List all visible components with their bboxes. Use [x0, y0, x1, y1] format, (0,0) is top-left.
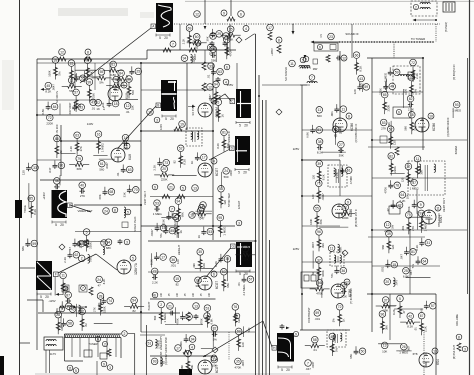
- junction: [140, 130, 142, 132]
- svg-text:5: 5: [40, 295, 42, 299]
- junction: [212, 130, 214, 132]
- resistor R4: [103, 69, 109, 71]
- svg-text:6.8K: 6.8K: [73, 74, 77, 80]
- wire: [334, 123, 336, 145]
- svg-text:51: 51: [347, 169, 351, 173]
- resistor R164: [219, 221, 221, 237]
- svg-text:22: 22: [96, 101, 100, 105]
- svg-text:27K: 27K: [411, 226, 415, 231]
- tube V2: [111, 148, 125, 162]
- svg-text:1 MEG: 1 MEG: [222, 226, 226, 236]
- svg-text:81: 81: [222, 131, 226, 135]
- svg-text:.01: .01: [313, 348, 317, 352]
- svg-text:MW: MW: [313, 67, 318, 71]
- wire: [204, 50, 206, 63]
- svg-text:.047: .047: [199, 216, 205, 220]
- svg-text:8: 8: [114, 208, 116, 212]
- svg-text:20: 20: [243, 171, 247, 175]
- wire: [59, 175, 61, 185]
- svg-text:5: 5: [75, 369, 77, 373]
- capacitor C14: [108, 99, 110, 102]
- ref: [192, 185, 199, 192]
- wire: [422, 58, 424, 150]
- wire: [196, 210, 213, 212]
- wire: [117, 74, 119, 88]
- svg-text:117V: 117V: [50, 352, 56, 356]
- svg-text:72: 72: [153, 270, 157, 274]
- wire: [236, 63, 238, 89]
- svg-text:6: 6: [213, 272, 215, 276]
- svg-text:120: 120: [400, 177, 404, 182]
- svg-text:38: 38: [318, 140, 322, 144]
- svg-text:140V: 140V: [87, 122, 94, 126]
- ref: [276, 37, 282, 43]
- svg-text:5: 5: [239, 272, 241, 276]
- svg-text:-115V: -115V: [48, 299, 55, 303]
- wire: [42, 300, 44, 312]
- photo pointer: [211, 94, 231, 103]
- svg-text:5: 5: [399, 297, 401, 301]
- svg-text:2.2K: 2.2K: [341, 295, 347, 299]
- svg-text:7: 7: [311, 76, 313, 80]
- wire: [372, 265, 440, 267]
- svg-text:17: 17: [268, 26, 272, 30]
- svg-text:36: 36: [171, 258, 175, 262]
- scope photo W6: [36, 261, 52, 290]
- capacitor C274: [195, 314, 197, 316]
- resistor R151: [75, 96, 77, 112]
- resistor R147: [81, 315, 83, 331]
- wire: [335, 127, 337, 138]
- resistor R86: [318, 167, 320, 183]
- resistor R275: [183, 350, 192, 354]
- inductor L232: [103, 247, 105, 250]
- capacitor C48: [159, 158, 161, 161]
- wire: [292, 24, 294, 32]
- ref: [95, 336, 100, 341]
- wire: [185, 0, 474, 2]
- svg-text:59: 59: [315, 311, 319, 315]
- svg-text:97: 97: [410, 76, 414, 80]
- svg-text:85: 85: [170, 229, 174, 233]
- svg-text:53: 53: [155, 201, 159, 205]
- svg-text:.0047: .0047: [208, 94, 212, 101]
- svg-text:+185V: +185V: [270, 48, 274, 56]
- resistor R204: [163, 48, 171, 52]
- ref 22: [95, 100, 102, 107]
- svg-text:68K: 68K: [180, 212, 184, 217]
- svg-text:5: 5: [238, 171, 240, 175]
- svg-text:3RD VIDEO IF: 3RD VIDEO IF: [227, 131, 231, 150]
- svg-text:2.2K: 2.2K: [335, 172, 339, 178]
- wire: [83, 71, 85, 83]
- svg-text:15: 15: [162, 226, 166, 230]
- svg-text:15: 15: [175, 277, 179, 281]
- svg-text:.047: .047: [305, 367, 311, 371]
- svg-text:59: 59: [364, 85, 368, 89]
- svg-text:10K: 10K: [190, 365, 194, 370]
- junction: [301, 195, 303, 197]
- svg-text:1K: 1K: [197, 235, 201, 239]
- ref: [83, 240, 89, 246]
- svg-text:8.2K: 8.2K: [45, 90, 51, 94]
- svg-text:.01: .01: [126, 110, 130, 114]
- ref 35: [235, 358, 242, 365]
- ref: [180, 185, 186, 191]
- svg-text:74: 74: [108, 299, 112, 303]
- resistor R207: [277, 45, 281, 53]
- svg-text:255V: 255V: [227, 83, 234, 87]
- svg-text:5: 5: [302, 58, 304, 62]
- svg-text:80: 80: [60, 164, 64, 168]
- junction: [212, 225, 214, 227]
- yoke lead: [265, 100, 267, 375]
- svg-text:5%: 5%: [99, 80, 104, 84]
- resistor R149: [92, 77, 98, 79]
- ref 64: [399, 192, 406, 199]
- svg-text:12BY7A: 12BY7A: [134, 262, 138, 275]
- ref 44: [197, 207, 204, 214]
- svg-text:2: 2: [124, 332, 126, 336]
- resistor R107: [390, 133, 392, 149]
- svg-text:.0047: .0047: [241, 360, 245, 367]
- svg-text:220K: 220K: [89, 242, 93, 249]
- svg-text:6: 6: [97, 337, 99, 341]
- capacitor C57: [203, 227, 205, 230]
- svg-text:11: 11: [318, 108, 322, 112]
- ref: [167, 303, 174, 310]
- resistor R66: [223, 275, 225, 291]
- right page edge: [469, 0, 471, 375]
- wire: [467, 58, 469, 294]
- resistor R39: [221, 34, 227, 36]
- svg-text:8.2K: 8.2K: [321, 174, 325, 180]
- ref: [309, 75, 315, 81]
- ref: [194, 11, 201, 18]
- yoke lead: [269, 240, 271, 375]
- svg-text:2.2K: 2.2K: [399, 199, 405, 203]
- svg-text:6CG7: 6CG7: [215, 281, 219, 290]
- capacitor C27: [104, 187, 106, 190]
- svg-text:5: 5: [159, 36, 161, 40]
- tube V12: [331, 284, 345, 298]
- resistor R150: [111, 78, 117, 80]
- ref: [152, 292, 158, 298]
- ref: [293, 331, 298, 336]
- photo pointer: [80, 28, 151, 83]
- svg-text:.0047: .0047: [311, 242, 315, 249]
- svg-text:61: 61: [100, 162, 104, 166]
- svg-text:9: 9: [347, 200, 349, 204]
- junction: [140, 204, 142, 206]
- wire: [212, 63, 214, 240]
- wire: [302, 195, 372, 197]
- svg-text:20: 20: [60, 223, 64, 227]
- svg-text:47: 47: [402, 310, 406, 314]
- svg-text:93: 93: [153, 360, 157, 364]
- capacitor C112: [392, 200, 394, 203]
- wire: [141, 331, 255, 333]
- svg-text:.047: .047: [399, 254, 403, 260]
- svg-text:15: 15: [148, 110, 152, 114]
- svg-text:73: 73: [212, 358, 216, 362]
- resistor R273: [186, 312, 190, 321]
- svg-text:8.2K: 8.2K: [214, 261, 218, 267]
- wire: [75, 76, 100, 78]
- svg-text:120: 120: [311, 174, 315, 179]
- resistor R116: [388, 237, 390, 253]
- svg-text:8.2K: 8.2K: [317, 151, 323, 155]
- svg-text:45: 45: [46, 84, 50, 88]
- wire: [390, 121, 392, 145]
- ref: [103, 208, 110, 215]
- svg-text:99: 99: [88, 80, 92, 84]
- resistor R10: [128, 83, 130, 99]
- capacitor C50: [196, 152, 198, 155]
- svg-text:33: 33: [33, 166, 37, 170]
- ref 66: [207, 44, 214, 51]
- wire: [106, 338, 108, 357]
- wire: [37, 159, 61, 161]
- capacitor C67: [243, 274, 245, 277]
- ref: [147, 109, 154, 116]
- ref 26: [401, 343, 408, 350]
- svg-text:.001: .001: [314, 317, 320, 321]
- ref: [303, 56, 309, 62]
- photo pointer: [70, 205, 91, 212]
- capacitor C52: [154, 208, 156, 210]
- ref V4: [211, 158, 217, 164]
- svg-text:87: 87: [66, 293, 70, 297]
- ref 7: [305, 360, 312, 367]
- resistor R18: [76, 139, 78, 155]
- capacitor C137: [103, 296, 105, 299]
- resistor R91: [318, 235, 320, 251]
- wire: [372, 139, 467, 141]
- svg-text:67: 67: [420, 314, 424, 318]
- svg-text:.0047: .0047: [321, 193, 325, 201]
- svg-text:68K: 68K: [123, 147, 128, 151]
- resistor R109: [417, 162, 419, 178]
- svg-text:29: 29: [217, 32, 221, 36]
- svg-text:10K: 10K: [193, 292, 195, 297]
- wire: [286, 327, 290, 330]
- svg-text:11: 11: [330, 247, 334, 251]
- capacitor C63: [152, 276, 154, 278]
- svg-text:68K: 68K: [77, 167, 82, 171]
- svg-text:6: 6: [398, 110, 400, 114]
- wire: [78, 241, 105, 243]
- wire: [75, 69, 96, 71]
- svg-text:1K: 1K: [220, 114, 224, 118]
- wire: [54, 277, 56, 296]
- svg-text:7: 7: [82, 286, 84, 290]
- svg-text:48: 48: [55, 179, 59, 183]
- capacitor C136: [66, 300, 68, 302]
- svg-text:.047: .047: [394, 279, 398, 285]
- ref: [207, 84, 214, 91]
- svg-text:82: 82: [173, 160, 177, 163]
- svg-text:49: 49: [390, 85, 394, 89]
- wire: [165, 324, 203, 326]
- svg-text:39K: 39K: [339, 154, 344, 158]
- capacitor C21: [54, 160, 56, 163]
- svg-text:62: 62: [75, 253, 79, 257]
- svg-text:53: 53: [208, 230, 212, 234]
- resistor R35: [215, 88, 217, 104]
- svg-text:6T8 AUDIO: 6T8 AUDIO: [437, 213, 441, 226]
- ref: [234, 313, 240, 319]
- svg-text:.001: .001: [170, 264, 176, 268]
- svg-text:220K: 220K: [103, 306, 107, 313]
- wire: [175, 307, 177, 323]
- svg-text:.01: .01: [414, 327, 418, 331]
- test point TP2: [276, 109, 282, 115]
- tube V13: [419, 353, 433, 367]
- wire: [406, 277, 431, 279]
- scope photo W8: [277, 333, 294, 362]
- svg-text:35: 35: [198, 250, 202, 254]
- wire: [93, 155, 107, 157]
- capacitor C104: [408, 104, 410, 106]
- ref: [125, 209, 131, 215]
- svg-text:27K: 27K: [79, 146, 83, 151]
- svg-text:36: 36: [341, 269, 345, 273]
- svg-text:220K: 220K: [46, 122, 53, 126]
- svg-text:82: 82: [195, 45, 199, 49]
- svg-text:6CB6: 6CB6: [350, 123, 354, 131]
- tube V7: [198, 360, 212, 374]
- ref: [67, 365, 73, 371]
- svg-text:2: 2: [81, 257, 83, 261]
- svg-text:3: 3: [109, 366, 111, 370]
- wire: [88, 338, 90, 357]
- svg-text:39K: 39K: [195, 284, 200, 288]
- wire: [416, 189, 418, 214]
- inductor L90: [420, 3, 423, 5]
- IF transformer T2: [408, 161, 445, 195]
- svg-text:63: 63: [218, 70, 222, 74]
- test point TP4: [342, 250, 348, 256]
- ref: [224, 64, 230, 70]
- svg-text:.0047: .0047: [51, 84, 55, 91]
- svg-text:42: 42: [408, 314, 412, 318]
- svg-text:20: 20: [162, 167, 166, 171]
- svg-text:2: 2: [104, 342, 106, 346]
- ref: [243, 26, 249, 32]
- svg-text:79: 79: [225, 38, 229, 42]
- ref: [175, 345, 182, 352]
- resistor R51: [154, 174, 160, 176]
- svg-text:8.2K: 8.2K: [392, 309, 396, 315]
- resistor R241: [202, 83, 206, 91]
- scope photo W7: [236, 242, 252, 267]
- svg-text:11: 11: [68, 366, 72, 370]
- resistor R161: [223, 136, 225, 152]
- svg-text:33K: 33K: [228, 38, 233, 42]
- power transformer T8: [44, 337, 63, 350]
- svg-text:5%: 5%: [411, 264, 415, 269]
- wire: [128, 333, 135, 335]
- tuner shield (hatched): [65, 333, 122, 335]
- test point TP3: [59, 244, 65, 250]
- svg-text:8.2K: 8.2K: [150, 259, 154, 265]
- svg-text:10K: 10K: [177, 292, 179, 297]
- capacitor C87: [341, 165, 343, 168]
- ref: [462, 346, 468, 352]
- ref: [152, 184, 158, 190]
- capacitor C73: [185, 334, 187, 337]
- ref: [101, 240, 108, 247]
- svg-text:6CG7: 6CG7: [215, 168, 219, 177]
- ref: [169, 206, 175, 212]
- svg-text:.0047: .0047: [68, 102, 72, 109]
- tube V4: [198, 163, 212, 177]
- photo pointer: [263, 321, 272, 347]
- wire: [212, 330, 214, 348]
- AGC bus choke: [339, 41, 434, 43]
- svg-text:5%: 5%: [159, 233, 163, 238]
- svg-text:12: 12: [386, 223, 390, 227]
- connector P3: [179, 369, 192, 375]
- svg-text:59: 59: [32, 242, 36, 246]
- wire: [76, 304, 78, 317]
- svg-text:64: 64: [401, 193, 405, 197]
- svg-text:4: 4: [191, 345, 193, 349]
- resistor R123: [331, 340, 333, 356]
- wire: [409, 216, 431, 218]
- transformer T5: [186, 128, 202, 146]
- resistor R140: [30, 202, 32, 218]
- svg-text:55: 55: [100, 70, 104, 74]
- svg-text:78: 78: [395, 184, 399, 188]
- svg-text:8.2K: 8.2K: [33, 209, 37, 215]
- wire: [227, 37, 229, 56]
- svg-text:1 MEG: 1 MEG: [410, 187, 420, 191]
- svg-text:60: 60: [195, 35, 199, 39]
- resistor R260: [457, 343, 461, 351]
- svg-text:8.2K: 8.2K: [183, 159, 187, 165]
- svg-text:69: 69: [211, 48, 215, 52]
- wire: [140, 63, 142, 332]
- wire: [201, 348, 214, 350]
- svg-text:82: 82: [409, 97, 413, 101]
- svg-text:9: 9: [103, 362, 105, 366]
- svg-text:4: 4: [245, 27, 247, 31]
- ref: [189, 344, 195, 350]
- inductor L217: [300, 67, 303, 69]
- svg-text:12: 12: [342, 56, 346, 60]
- ref: [112, 207, 118, 213]
- ref 94: [105, 239, 112, 246]
- svg-text:560: 560: [153, 315, 157, 320]
- svg-text:24: 24: [104, 209, 108, 213]
- svg-text:8: 8: [348, 114, 350, 118]
- ref: [289, 60, 296, 67]
- svg-text:18: 18: [114, 102, 118, 106]
- svg-text:69: 69: [188, 26, 192, 30]
- junction: [422, 57, 424, 59]
- capacitor C231: [76, 243, 78, 245]
- svg-text:46: 46: [330, 335, 334, 339]
- svg-text:5%: 5%: [413, 89, 417, 94]
- resistor R68: [160, 308, 162, 324]
- svg-text:.0047: .0047: [229, 169, 233, 176]
- svg-text:TO TUNER: TO TUNER: [411, 37, 425, 41]
- svg-text:(TUNER): (TUNER): [445, 22, 448, 32]
- ref: [195, 40, 201, 46]
- capacitor C141: [27, 239, 29, 242]
